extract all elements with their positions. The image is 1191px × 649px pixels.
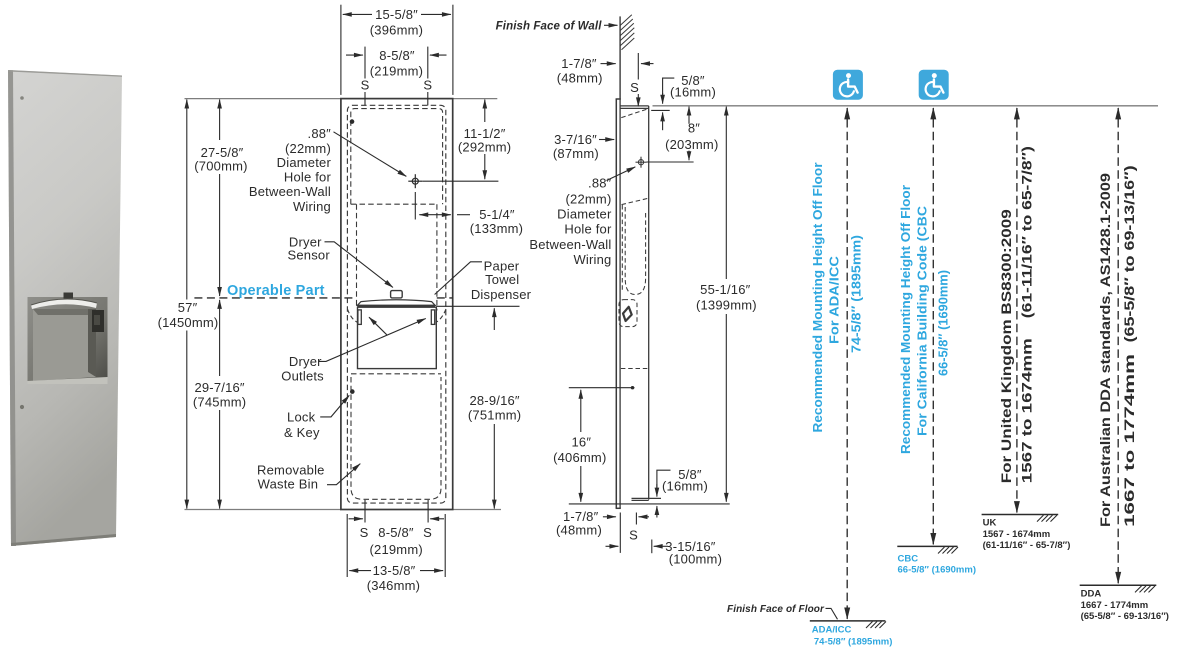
svg-text:Lock: Lock <box>287 410 316 425</box>
top edge line <box>8 70 122 77</box>
tray lid band <box>357 305 435 307</box>
towel tray lid in photo <box>31 299 97 309</box>
svg-text:Between-Wall: Between-Wall <box>249 184 331 199</box>
svg-text:.88″: .88″ <box>308 126 332 141</box>
tray lid <box>357 300 435 306</box>
CBC floor <box>897 545 957 547</box>
svg-text:S: S <box>629 528 638 543</box>
svg-text:(48mm): (48mm) <box>556 523 602 538</box>
svg-text:S: S <box>423 525 432 540</box>
svg-text:Outlets: Outlets <box>281 369 324 384</box>
lock leader <box>320 395 349 417</box>
DDA floor <box>1080 584 1157 586</box>
svg-text:Between-Wall: Between-Wall <box>529 237 611 252</box>
svg-text:Recommended Mounting Height Of: Recommended Mounting Height Off Floor <box>810 163 825 433</box>
1-7/8 bottom arrows <box>603 516 616 518</box>
towel slot glyph <box>623 307 632 321</box>
paper towel dispenser label <box>471 259 532 302</box>
svg-text:1667 - 1774mm: 1667 - 1774mm <box>1081 600 1149 611</box>
svg-text:DDA: DDA <box>1081 589 1102 600</box>
tray reference line <box>436 305 519 307</box>
front labels <box>249 126 332 491</box>
svg-text:S: S <box>423 78 432 93</box>
svg-text:57″: 57″ <box>178 300 198 315</box>
svg-text:15-5/8″: 15-5/8″ <box>375 7 418 22</box>
svg-text:(22mm): (22mm) <box>566 191 612 206</box>
svg-text:Hole for: Hole for <box>564 222 612 237</box>
towel stack dashed outline <box>625 207 645 295</box>
8-5/8 stud lines top <box>364 47 366 79</box>
svg-text:(65-5/8″ to 69-13/16″): (65-5/8″ to 69-13/16″) <box>1121 165 1137 342</box>
UK drop line <box>1016 119 1018 502</box>
cabinet top double line <box>620 105 649 107</box>
svg-text:1567 - 1674mm: 1567 - 1674mm <box>983 529 1051 540</box>
svg-text:11-1/2″: 11-1/2″ <box>464 126 506 141</box>
dryer outlet right <box>431 310 434 325</box>
svg-text:8″: 8″ <box>688 121 700 136</box>
27-5/8 dim line <box>219 100 221 141</box>
panel body <box>8 70 122 546</box>
stud line bottom <box>635 513 637 525</box>
finish face of wall arrow <box>604 24 618 26</box>
svg-text:Wiring: Wiring <box>293 199 331 214</box>
svg-text:Dispenser: Dispenser <box>471 287 532 302</box>
waste bin dashed outline <box>351 377 441 499</box>
svg-text:ADA/ICC: ADA/ICC <box>812 625 852 636</box>
lock dot <box>350 389 355 394</box>
57in dim line <box>186 100 188 300</box>
floor line (side) <box>569 503 730 505</box>
cabinet back <box>648 106 650 500</box>
bottom reference line (gray) <box>185 509 341 511</box>
5/8 top bracket <box>663 78 675 99</box>
paper towel dispenser leader <box>435 262 482 295</box>
floor lines <box>810 515 1157 629</box>
svg-text:Waste Bin: Waste Bin <box>258 477 319 492</box>
8in dim <box>688 107 690 124</box>
svg-text:S: S <box>360 525 369 540</box>
svg-text:UK: UK <box>983 518 997 529</box>
5/8 bottom bracket <box>657 470 671 490</box>
svg-text:29-7/16″: 29-7/16″ <box>194 380 244 395</box>
towel slot dashed box <box>619 300 637 327</box>
svg-text:1567 to 1674mm: 1567 to 1674mm <box>1019 338 1035 483</box>
13-5/8 arrows <box>349 570 371 572</box>
svg-text:13-5/8″: 13-5/8″ <box>373 563 416 578</box>
svg-text:Finish Face of Floor: Finish Face of Floor <box>727 604 825 615</box>
svg-text:(745mm): (745mm) <box>193 395 246 410</box>
svg-text:55-1/16″: 55-1/16″ <box>700 282 750 297</box>
hole symbol (side) <box>638 160 643 165</box>
svg-text:.88″: .88″ <box>588 176 612 191</box>
svg-text:74-5/8″ (1895mm): 74-5/8″ (1895mm) <box>814 637 892 648</box>
recess interior <box>33 309 96 381</box>
accessibility icon 2 <box>919 70 949 100</box>
1-7/8 top arrows <box>601 63 616 65</box>
5/8 short reference line <box>651 109 670 111</box>
5-1/4 extension below hole <box>414 192 416 220</box>
ADA floor <box>810 620 886 622</box>
front dims <box>187 5 520 577</box>
vertical column texts <box>810 146 1137 527</box>
bin top dashed (side) <box>621 368 649 370</box>
bottom 8-5/8 arrows <box>349 518 363 520</box>
ADA drop line <box>846 119 848 608</box>
waste bin leader <box>327 464 360 485</box>
hole centre line to right <box>422 180 498 182</box>
svg-text:66-5/8″ (1690mm): 66-5/8″ (1690mm) <box>898 565 976 576</box>
finish face of floor leader <box>826 608 838 619</box>
floor labels <box>812 554 976 648</box>
16in reference line <box>569 387 635 389</box>
svg-text:Dryer: Dryer <box>289 354 322 369</box>
13-5/8 extension lines <box>346 514 348 577</box>
dryer sensor leader <box>325 242 393 288</box>
tray body <box>358 307 437 368</box>
svg-text:S: S <box>630 80 639 95</box>
stud line top <box>637 53 639 80</box>
wall face extension below <box>619 513 621 553</box>
wiring hole dot <box>350 119 355 124</box>
screw bottom <box>20 405 24 409</box>
top reference line (gray) <box>185 98 341 100</box>
svg-text:Removable: Removable <box>257 462 325 477</box>
svg-text:Sensor: Sensor <box>288 247 331 262</box>
svg-text:(219mm): (219mm) <box>370 63 423 78</box>
sensor knob <box>391 291 403 298</box>
outer dashed door line <box>347 105 445 503</box>
svg-text:& Key: & Key <box>284 425 320 440</box>
dashed arcs under tray <box>347 309 360 324</box>
svg-text:74-5/8″ (1895mm): 74-5/8″ (1895mm) <box>849 235 864 353</box>
svg-text:(346mm): (346mm) <box>367 578 420 593</box>
svg-text:(100mm): (100mm) <box>669 552 722 567</box>
dryer outlet left <box>358 310 361 325</box>
waste bin dashed top <box>351 373 441 375</box>
panel bottom edge <box>11 534 116 546</box>
svg-text:1-7/8″: 1-7/8″ <box>561 56 597 71</box>
svg-text:1667 to 1774mm: 1667 to 1774mm <box>1121 354 1137 527</box>
hole crosshair <box>412 178 418 184</box>
towel compartment dashed vertical <box>621 205 623 292</box>
.88 leader (side) <box>607 167 636 181</box>
panel left edge strip <box>8 70 16 546</box>
svg-text:(396mm): (396mm) <box>370 22 423 37</box>
svg-text:(61-11/16″ to 65-7/8″): (61-11/16″ to 65-7/8″) <box>1019 146 1035 318</box>
svg-text:Operable Part: Operable Part <box>227 283 325 299</box>
flange bottom cap <box>616 507 621 509</box>
8-5/8 arrows <box>346 54 363 56</box>
11-1/2 dim line <box>484 100 486 123</box>
cabinet bottom double line <box>632 497 662 499</box>
svg-text:(133mm): (133mm) <box>470 221 523 236</box>
3-15/16 arrows <box>606 545 619 547</box>
svg-text:(16mm): (16mm) <box>662 478 708 493</box>
15-5/8 arrows <box>343 13 372 15</box>
svg-text:Recommended Mounting Height Of: Recommended Mounting Height Off Floor <box>898 185 913 454</box>
svg-text:For Australian DDA standards,: For Australian DDA standards, AS1428.1-2… <box>1097 173 1113 527</box>
svg-text:For ADA/ICC: For ADA/ICC <box>827 255 842 344</box>
operable part dashed line <box>194 297 356 299</box>
16in dim <box>580 390 582 432</box>
front dim texts <box>158 7 524 593</box>
sensor block <box>92 310 104 332</box>
svg-text:8-5/8″: 8-5/8″ <box>379 48 415 63</box>
dryer compartment dashed bottom <box>351 203 437 205</box>
5-1/4 leader tick <box>457 214 470 216</box>
28-9/16 dim line <box>493 308 495 330</box>
svg-text:S: S <box>361 78 370 93</box>
svg-text:(751mm): (751mm) <box>468 408 521 423</box>
svg-text:3-7/16″: 3-7/16″ <box>554 132 597 147</box>
flange back / wall plane <box>619 99 621 509</box>
top long reference line <box>653 105 1159 107</box>
svg-text:28-9/16″: 28-9/16″ <box>469 393 519 408</box>
svg-text:16″: 16″ <box>571 435 591 450</box>
svg-text:Finish Face of Wall: Finish Face of Wall <box>496 21 603 33</box>
recess opening <box>28 297 108 384</box>
compartment dashed verticals <box>356 204 358 306</box>
svg-text:(16mm): (16mm) <box>670 85 716 100</box>
5-1/4 arrows <box>419 214 451 216</box>
interior dashed diagonal top <box>621 109 648 118</box>
svg-text:5-1/4″: 5-1/4″ <box>479 207 515 222</box>
svg-text:(22mm): (22mm) <box>285 141 331 156</box>
svg-text:(1450mm): (1450mm) <box>158 315 219 330</box>
3-7/16 arrow <box>599 139 614 141</box>
svg-text:(65-5/8″ - 69-13/16″): (65-5/8″ - 69-13/16″) <box>1081 611 1169 622</box>
29-7/16 dim line <box>219 300 221 376</box>
svg-text:(219mm): (219mm) <box>369 542 422 557</box>
wall face line <box>619 16 621 98</box>
svg-text:(700mm): (700mm) <box>194 159 247 174</box>
screw top <box>20 96 24 100</box>
UK floor <box>982 514 1059 516</box>
flange front face <box>615 99 617 509</box>
svg-text:(87mm): (87mm) <box>553 146 599 161</box>
interior dashed diagonal mid <box>622 198 649 204</box>
svg-text:66-5/8″ (1690mm): 66-5/8″ (1690mm) <box>936 270 951 376</box>
3-15/16 extension <box>651 540 653 554</box>
cabinet outline <box>341 99 453 510</box>
dryer compartment dashed outline <box>351 109 443 205</box>
svg-text:(48mm): (48mm) <box>557 71 603 86</box>
accessibility icon 1 <box>833 70 863 100</box>
svg-text:(406mm): (406mm) <box>553 450 606 465</box>
55-1/16 dim <box>725 107 727 279</box>
svg-text:Diameter: Diameter <box>277 155 332 170</box>
svg-text:(292mm): (292mm) <box>458 140 511 155</box>
svg-text:Wiring: Wiring <box>573 252 611 267</box>
towel tray (front view) <box>357 291 436 369</box>
svg-text:(61-11/16″ - 65-7/8″): (61-11/16″ - 65-7/8″) <box>983 540 1071 551</box>
dryer outlets leader <box>319 319 426 362</box>
wiring hole leader <box>334 132 407 177</box>
svg-text:CBC: CBC <box>898 554 919 565</box>
DDA drop line <box>1117 119 1119 573</box>
knob in photo <box>64 293 74 299</box>
side dims <box>569 25 1158 553</box>
bottom stud lines <box>364 500 366 523</box>
svg-text:Towel: Towel <box>485 272 519 287</box>
hole reference line (side) <box>647 161 694 163</box>
.88 label block (side) <box>529 176 612 268</box>
15-5/8 extension lines <box>340 5 342 95</box>
svg-text:Diameter: Diameter <box>557 206 612 221</box>
svg-text:(1399mm): (1399mm) <box>696 298 757 313</box>
flange top cap <box>616 98 621 100</box>
svg-text:For California Building Code (: For California Building Code (CBC <box>915 205 930 436</box>
CBC drop line <box>932 119 934 534</box>
svg-text:(203mm): (203mm) <box>665 137 718 152</box>
svg-text:Hole for: Hole for <box>284 170 332 185</box>
svg-text:For United Kingdom BS8300:2009: For United Kingdom BS8300:2009 <box>998 209 1014 483</box>
svg-text:8-5/8″: 8-5/8″ <box>378 525 414 540</box>
opening bottom sill <box>28 377 108 384</box>
wall hatching <box>620 15 634 50</box>
